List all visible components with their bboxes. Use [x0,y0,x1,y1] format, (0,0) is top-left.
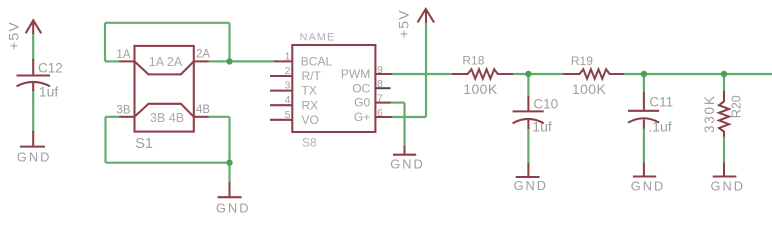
svg-text:+5V: +5V [5,21,21,50]
svg-text:1uf: 1uf [39,84,59,100]
svg-text:VO: VO [302,113,319,127]
svg-text:100K: 100K [572,81,607,97]
svg-text:NAME: NAME [300,32,336,44]
svg-text:1uf: 1uf [532,119,552,135]
svg-text:PWM: PWM [341,67,370,81]
svg-text:C12: C12 [38,60,63,75]
svg-text:GND: GND [631,178,665,193]
svg-text:5: 5 [285,109,291,121]
svg-text:S8: S8 [302,136,317,150]
svg-text:GND: GND [390,157,424,172]
svg-text:330K: 330K [702,94,717,133]
svg-text:GND: GND [216,200,250,215]
svg-text:3B 4B: 3B 4B [150,111,184,125]
svg-text:S1: S1 [135,136,153,152]
svg-text:3B: 3B [116,105,130,117]
svg-text:6: 6 [377,107,383,119]
svg-text:3: 3 [285,80,291,92]
svg-text:RX: RX [302,98,319,112]
svg-text:GND: GND [514,178,548,193]
svg-text:BCAL: BCAL [301,55,333,69]
svg-text:TX: TX [302,84,317,98]
svg-text:1A 2A: 1A 2A [149,55,183,69]
svg-text:OC: OC [352,81,370,95]
svg-text:C10: C10 [533,96,558,111]
svg-text:8: 8 [377,78,383,90]
svg-text:G0: G0 [354,96,370,110]
svg-text:R20: R20 [729,95,743,118]
svg-text:4B: 4B [196,104,210,116]
svg-text:.1uf: .1uf [648,119,671,135]
svg-text:GND: GND [17,150,51,165]
svg-text:R18: R18 [462,54,484,68]
svg-text:C11: C11 [649,95,673,110]
svg-text:1: 1 [285,50,291,62]
svg-text:G+: G+ [354,110,370,124]
svg-text:GND: GND [711,178,745,193]
svg-text:7: 7 [377,93,383,105]
svg-text:4: 4 [285,94,291,106]
svg-text:R19: R19 [571,54,593,68]
svg-text:9: 9 [377,64,383,76]
svg-text:1A: 1A [116,49,130,61]
svg-text:2: 2 [285,65,291,77]
svg-text:R/T: R/T [302,69,322,83]
svg-text:100K: 100K [463,81,498,97]
svg-text:2A: 2A [196,49,210,61]
svg-text:+5V: +5V [396,9,412,38]
